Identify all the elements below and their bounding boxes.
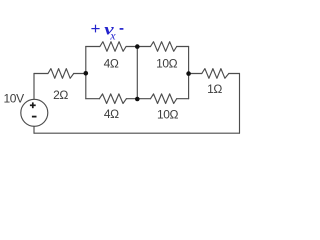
- svg-text:1Ω: 1Ω: [207, 82, 222, 96]
- wire R6 to right edge: [229, 73, 240, 75]
- svg-text:4Ω: 4Ω: [104, 107, 119, 121]
- wire R1 to node A: [74, 73, 86, 75]
- source plus sign: [30, 102, 36, 108]
- source minus sign: [32, 116, 37, 118]
- wire top branch middle segment: [126, 46, 150, 48]
- svg-text:10V: 10V: [4, 91, 25, 105]
- svg-text:4Ω: 4Ω: [104, 57, 119, 71]
- vx minus sign blue: [120, 28, 124, 30]
- svg-text:x: x: [109, 29, 116, 43]
- wire bottom branch right segment: [177, 98, 189, 100]
- node D junction dot bottom middle: [135, 97, 140, 102]
- node A junction dot: [84, 71, 89, 76]
- node B junction dot top middle: [135, 44, 140, 49]
- svg-text:10Ω: 10Ω: [157, 108, 179, 122]
- voltage source V1 circle: [21, 99, 48, 126]
- wire bottom branch middle segment: [126, 98, 150, 100]
- wire source top to corner: [33, 74, 35, 100]
- resistor R5 10ohm bottom zigzag: [151, 94, 177, 104]
- wire left rail: [85, 47, 87, 99]
- wire top branch left segment: [86, 46, 100, 48]
- wire top branch right segment: [177, 46, 189, 48]
- node C junction dot right: [186, 71, 191, 76]
- svg-text:2Ω: 2Ω: [53, 88, 68, 102]
- wire corner to R 2ohm: [34, 73, 48, 75]
- svg-text:10Ω: 10Ω: [156, 57, 178, 71]
- wire bottom stub to source: [33, 126, 35, 133]
- resistor R6 1ohm zigzag: [202, 69, 229, 79]
- resistor R2 4ohm top zigzag: [100, 42, 126, 52]
- resistor R4 10ohm top zigzag: [151, 42, 177, 52]
- wire bottom branch left segment: [86, 98, 100, 100]
- resistor R1 2ohm zigzag: [48, 69, 74, 79]
- wire right edge down: [239, 74, 241, 134]
- wire node C to R 1ohm: [189, 73, 202, 75]
- wire bottom return: [34, 132, 240, 134]
- wire middle rail: [136, 47, 138, 100]
- vx plus sign blue: [91, 25, 99, 33]
- resistor R3 4ohm bottom zigzag: [99, 94, 126, 104]
- wire right rail: [188, 47, 190, 99]
